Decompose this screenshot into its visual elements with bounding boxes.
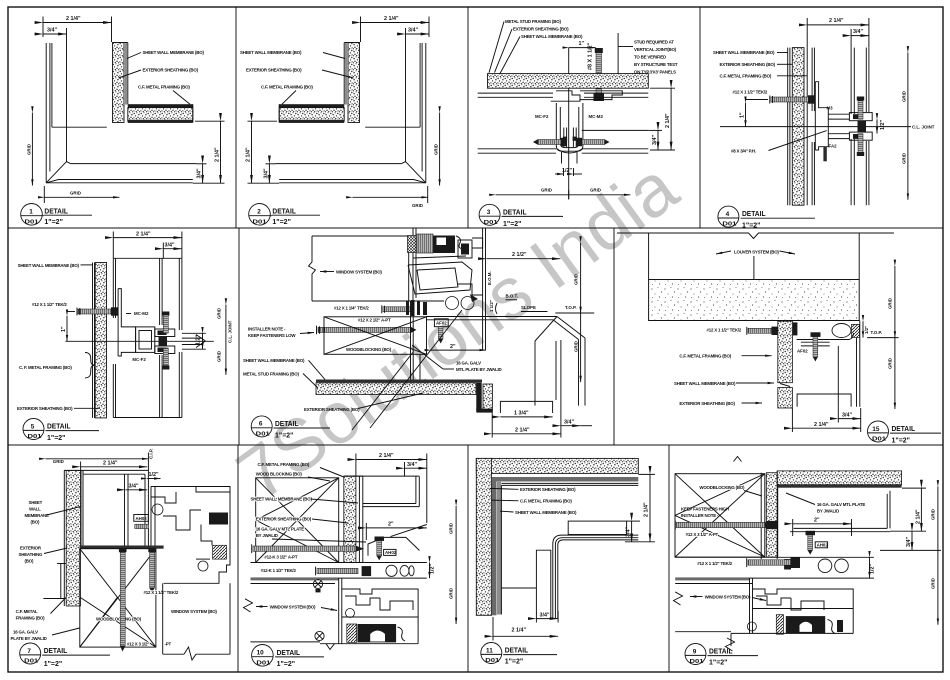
top band right [777, 471, 901, 485]
vertical screw at joint [596, 53, 602, 98]
svg-text:D01: D01 [253, 219, 267, 225]
glazing tube right [182, 332, 206, 334]
svg-text:DETAIL: DETAIL [44, 207, 68, 216]
AH02 box + small screw [134, 515, 149, 522]
svg-text:D01: D01 [690, 659, 704, 665]
svg-text:GRID: GRID [449, 588, 454, 599]
clip rects with dark interlock [155, 329, 175, 337]
vertical screw + AH02 [806, 531, 816, 535]
corner detail linework [43, 17, 225, 184]
1/2 dim below [563, 168, 565, 176]
dim 2 1/2 [487, 258, 561, 260]
joint centerline [568, 48, 570, 199]
skin lines upper right [584, 92, 648, 94]
svg-text:M3: M3 [827, 106, 834, 111]
row divider 2 [8, 444, 943, 446]
screw 2 [317, 568, 358, 573]
AF02 box [434, 319, 448, 327]
svg-text:3/4": 3/4" [652, 135, 658, 145]
svg-text:T.O.P.: T.O.P. [871, 330, 883, 335]
long screw 1 [253, 546, 356, 551]
bottom dim 3/4 [536, 618, 558, 620]
jamb lines [49, 43, 51, 172]
band bottom heavier [649, 320, 860, 322]
svg-text:WINDOW SYSTEM (BO): WINDOW SYSTEM (BO) [171, 609, 217, 614]
right ext line [648, 129, 662, 131]
svg-text:SHEET WALL MEMBRANE (BO): SHEET WALL MEMBRANE (BO) [240, 50, 302, 55]
svg-text:2 1/4": 2 1/4" [644, 502, 650, 517]
svg-text:2 1/4": 2 1/4" [829, 18, 844, 24]
stud vertical line [617, 33, 619, 74]
svg-text:2 1/4": 2 1/4" [215, 147, 221, 162]
row divider 1 [8, 227, 943, 229]
window head frame [675, 579, 749, 581]
svg-text:STUD REQUIRED AT: STUD REQUIRED AT [634, 40, 674, 45]
svg-text:1 1/2": 1 1/2" [489, 300, 494, 312]
svg-text:3/4": 3/4" [842, 412, 852, 418]
svg-text:AF02: AF02 [436, 321, 447, 326]
right dims [920, 488, 922, 531]
bracket tail dark [823, 147, 826, 162]
svg-text:4: 4 [726, 211, 730, 218]
top clip screw [858, 100, 863, 120]
svg-text:1"=2": 1"=2" [44, 217, 63, 226]
svg-text:D01: D01 [722, 222, 736, 228]
frame extrusions [338, 578, 340, 644]
svg-text:2": 2" [450, 344, 456, 350]
svg-text:C.F. METAL FRAMING (BO): C.F. METAL FRAMING (BO) [138, 85, 190, 90]
svg-text:3/4": 3/4" [853, 29, 863, 35]
svg-text:1": 1" [740, 112, 746, 118]
right horizontal screw [582, 140, 605, 145]
sheathing horizontal band [316, 383, 476, 395]
svg-text:GRID: GRID [888, 298, 893, 309]
ledge corner [426, 316, 557, 318]
svg-text:MC-F2: MC-F2 [132, 357, 146, 362]
svg-text:DETAIL: DETAIL [505, 646, 529, 655]
svg-text:3/4": 3/4" [47, 28, 57, 34]
svg-text:EXTERIOR SHEATHING (BO): EXTERIOR SHEATHING (BO) [143, 68, 199, 73]
wall sheathing horizontal band [488, 74, 649, 89]
svg-text:C.I.P.: C.I.P. [149, 449, 154, 459]
window jamb frame cluster [152, 504, 163, 515]
window system block [251, 641, 321, 643]
svg-text:1/2": 1/2" [149, 472, 159, 478]
dim extension lines [42, 17, 44, 38]
svg-text:#12 X 1 1/2" TEK/2: #12 X 1 1/2" TEK/2 [707, 328, 742, 333]
detail bubble 2 [249, 204, 271, 226]
svg-text:1"=2": 1"=2" [47, 433, 66, 442]
svg-text:TO BE VERIFIED: TO BE VERIFIED [634, 55, 666, 60]
svg-text:3/4": 3/4" [564, 419, 574, 425]
detail bubble 5 [23, 419, 44, 440]
inner lines horizontal [501, 482, 638, 484]
svg-text:DETAIL: DETAIL [742, 209, 766, 218]
joint gap dim 1/2 [876, 120, 878, 134]
svg-text:C.F. METAL FRAMING (BO): C.F. METAL FRAMING (BO) [520, 499, 572, 504]
svg-text:2 1/4": 2 1/4" [915, 509, 921, 524]
top grid dim [46, 458, 149, 460]
dim 1 inch vertical [745, 103, 747, 127]
svg-text:3/4": 3/4" [129, 484, 139, 490]
outer skin U profile [415, 476, 417, 503]
svg-text:E.O.M.: E.O.M. [487, 271, 492, 285]
svg-text:C.F. METAL FRAMING (BO): C.F. METAL FRAMING (BO) [679, 354, 731, 359]
small break tick above blocking [734, 457, 742, 462]
svg-text:3/4": 3/4" [165, 242, 175, 248]
interlock dark [858, 121, 867, 132]
long vertical screw [120, 550, 125, 646]
svg-text:AF02: AF02 [797, 349, 808, 354]
bottom cap [113, 417, 182, 419]
bracket c-shape [815, 82, 828, 150]
svg-text:2 1/4": 2 1/4" [515, 427, 530, 433]
dim 2 1/4 [356, 459, 427, 461]
svg-text:FRAMING (BO): FRAMING (BO) [16, 616, 46, 621]
svg-text:6: 6 [259, 421, 263, 428]
svg-text:SHEET WALL MEMBRANE (BO): SHEET WALL MEMBRANE (BO) [713, 50, 775, 55]
short vertical screw [150, 550, 155, 588]
svg-text:WINDOW SYSTEM (BO): WINDOW SYSTEM (BO) [705, 595, 751, 600]
svg-text:SHEET WALL MEMBRANE (BO): SHEET WALL MEMBRANE (BO) [251, 497, 313, 502]
dim 1/2 [147, 478, 160, 480]
left grid dim [31, 113, 33, 186]
svg-text:#12 X 1 1/2" TEK/2: #12 X 1 1/2" TEK/2 [144, 590, 179, 595]
wall membrane lines [63, 470, 65, 606]
svg-text:GRID: GRID [931, 509, 936, 520]
svg-text:#12 X 1 1/4" TEK/2: #12 X 1 1/4" TEK/2 [334, 306, 369, 311]
svg-text:AH02: AH02 [136, 516, 148, 521]
svg-text:D01: D01 [256, 660, 270, 666]
wood blocking X [324, 317, 427, 355]
svg-text:16 GA. GALV MTL PLATE: 16 GA. GALV MTL PLATE [256, 527, 305, 532]
svg-text:1/2": 1/2" [562, 168, 572, 174]
skins outer [159, 258, 161, 325]
svg-text:GRID: GRID [590, 188, 601, 193]
wall sheathing vertical band [113, 43, 125, 123]
svg-text:1"=2": 1"=2" [277, 659, 296, 668]
window system block [162, 583, 164, 654]
inner verticals [837, 346, 839, 407]
svg-text:WOODBLOCKING (BO): WOODBLOCKING (BO) [346, 347, 392, 352]
svg-text:2 1/2": 2 1/2" [512, 252, 527, 258]
svg-text:16 GA. GALV: 16 GA. GALV [456, 361, 481, 366]
svg-text:1/2": 1/2" [430, 564, 436, 574]
svg-text:EXTERIOR SHEATHING (BO): EXTERIOR SHEATHING (BO) [513, 27, 569, 32]
horizontal sheathing band [128, 108, 193, 122]
wall sheathing vertical band [95, 263, 106, 418]
left dim 3/4 vertical [268, 164, 270, 183]
head band [675, 556, 874, 558]
svg-text:GRID: GRID [449, 523, 454, 534]
svg-text:1"=2": 1"=2" [742, 221, 761, 230]
svg-text:D01: D01 [256, 431, 270, 437]
svg-text:#8 X 3/4" P.H.: #8 X 3/4" P.H. [731, 149, 756, 154]
right grid dims [225, 305, 227, 375]
svg-text:MEMBRANE: MEMBRANE [25, 513, 50, 518]
svg-text:2": 2" [388, 522, 394, 528]
right dim 2 1/4 [649, 474, 651, 541]
bottom grid dim [496, 194, 631, 196]
gasket roll ellipse [832, 324, 851, 338]
skins inner [112, 258, 114, 318]
svg-text:1"=2": 1"=2" [275, 430, 294, 439]
svg-text:1/2": 1/2" [870, 564, 876, 574]
mounting bar [801, 341, 830, 343]
dim 2 1/4 top [43, 22, 112, 24]
detail bubble 15 [868, 421, 889, 442]
svg-text:16 GA. GALV: 16 GA. GALV [13, 630, 38, 635]
svg-text:SHEATHING: SHEATHING [19, 552, 44, 557]
mullion verticals [124, 474, 126, 549]
svg-text:KEEP FASTENERS LOW: KEEP FASTENERS LOW [248, 333, 296, 338]
svg-text:DETAIL: DETAIL [47, 422, 71, 431]
right grid dim [894, 266, 896, 338]
svg-text:SHEET WALL MEMBRANE (BO): SHEET WALL MEMBRANE (BO) [515, 510, 577, 515]
outer skin lines below joint [850, 139, 852, 205]
svg-text:9: 9 [693, 648, 697, 655]
svg-text:EXTERIOR SHEATHING (BO): EXTERIOR SHEATHING (BO) [256, 517, 312, 522]
top cap line [113, 257, 182, 259]
bottom dims [838, 418, 860, 420]
clip channel [136, 327, 155, 353]
right dim 3/4 vertical [657, 130, 659, 150]
dim 1 inch vertical [66, 316, 68, 342]
svg-text:EXTERIOR SHEATHING (BO): EXTERIOR SHEATHING (BO) [520, 487, 576, 492]
svg-text:11: 11 [486, 647, 493, 654]
svg-text:DETAIL: DETAIL [275, 419, 299, 428]
svg-text:INSTALLER NOTE -: INSTALLER NOTE - [681, 513, 719, 518]
svg-text:(BO): (BO) [25, 559, 34, 564]
wood blocking X [256, 478, 339, 563]
svg-text:#12 X 1 1/2" TEK/2: #12 X 1 1/2" TEK/2 [32, 302, 67, 307]
vertical screw + AH02 [375, 537, 385, 541]
right dim 3/4 [631, 521, 633, 542]
U channel bottom [797, 394, 851, 407]
svg-text:MC-M2: MC-M2 [134, 311, 149, 316]
svg-text:3/4": 3/4" [263, 168, 269, 178]
vertical screw [811, 332, 821, 337]
svg-text:DETAIL: DETAIL [272, 207, 296, 216]
horizontal tek screw [78, 309, 111, 314]
svg-text:#12 X 3 1/2": #12 X 3 1/2" [127, 641, 149, 646]
membrane lines [125, 43, 127, 105]
svg-text:2 1/4": 2 1/4" [136, 231, 151, 237]
svg-text:1"=2": 1"=2" [709, 658, 728, 667]
svg-text:DETAIL: DETAIL [503, 207, 527, 216]
svg-text:C.F. METAL: C.F. METAL [16, 609, 38, 614]
svg-text:1"=2": 1"=2" [44, 659, 63, 668]
right grid dims [455, 506, 457, 624]
svg-text:GRID: GRID [888, 358, 893, 369]
col dividers bottom row [237, 445, 239, 672]
centerline [65, 340, 213, 342]
svg-text:D01: D01 [872, 437, 886, 443]
svg-text:SHEET: SHEET [29, 500, 43, 505]
skin lines upper left [478, 92, 553, 94]
svg-text:D01: D01 [24, 659, 38, 665]
wall stipple strip [66, 470, 80, 606]
inner skin lines [811, 48, 813, 111]
svg-text:-PT: -PT [165, 641, 172, 646]
svg-text:SLOPE: SLOPE [521, 305, 536, 310]
wall membrane lines [92, 263, 94, 418]
svg-text:2 1/4": 2 1/4" [665, 113, 671, 128]
svg-text:SHEET WALL MEMBRANE (BO): SHEET WALL MEMBRANE (BO) [18, 263, 80, 268]
right dim 2 1/4 vertical [220, 121, 222, 183]
svg-text:KEEP FASTENERS HIGH: KEEP FASTENERS HIGH [681, 507, 729, 512]
svg-text:MC-M2: MC-M2 [589, 114, 604, 119]
svg-text:SHEET WALL MEMBRANE (BO): SHEET WALL MEMBRANE (BO) [243, 358, 305, 363]
dim 1 inch [569, 47, 596, 49]
svg-text:EXTERIOR SHEATHING (BO): EXTERIOR SHEATHING (BO) [17, 406, 73, 411]
right grid dim [907, 53, 909, 200]
membrane dark band [316, 380, 482, 383]
svg-text:2 1/4": 2 1/4" [246, 147, 252, 162]
louver band verticals [648, 233, 650, 280]
svg-text:1 3/4": 1 3/4" [514, 411, 529, 417]
bottom tube [561, 152, 563, 164]
svg-text:3/4": 3/4" [408, 28, 418, 34]
left bracket [551, 91, 580, 101]
svg-text:WOODBLOCKING (BO): WOODBLOCKING (BO) [96, 617, 142, 622]
svg-text:2": 2" [814, 518, 820, 524]
svg-text:SHEET WALL MEMBRANE (BO): SHEET WALL MEMBRANE (BO) [521, 34, 583, 39]
lower skin lines left [478, 148, 556, 150]
svg-text:2 1/4": 2 1/4" [814, 422, 829, 428]
svg-text:#12-K 3 1/2" A-PT: #12-K 3 1/2" A-PT [264, 555, 297, 560]
svg-text:PLATE BY JWALID: PLATE BY JWALID [11, 636, 47, 641]
svg-text:DETAIL: DETAIL [892, 424, 916, 433]
bottom clip screw [163, 348, 168, 367]
z-bracket [118, 289, 136, 356]
svg-text:WINDOW SYSTEM (BO): WINDOW SYSTEM (BO) [336, 270, 382, 275]
svg-text:D01: D01 [485, 658, 499, 664]
svg-text:1"=2": 1"=2" [892, 436, 911, 445]
horizontal tek screw [771, 97, 812, 102]
svg-text:MC-F2: MC-F2 [535, 114, 549, 119]
svg-text:BY JWALID: BY JWALID [256, 533, 278, 538]
svg-text:#8 X 1 1/2": #8 X 1 1/2" [588, 42, 594, 70]
svg-text:BY JWALID: BY JWALID [817, 509, 839, 514]
wall stipple strip [766, 473, 778, 557]
svg-text:EXTERIOR: EXTERIOR [20, 546, 42, 551]
svg-text:B.O.T.: B.O.T. [506, 294, 518, 299]
svg-text:2 1/4": 2 1/4" [379, 453, 394, 459]
svg-text:GRID: GRID [574, 274, 579, 285]
svg-text:2: 2 [257, 209, 261, 216]
slope diagonal [391, 525, 427, 537]
svg-text:#12 X 1 1/2" TEK/2: #12 X 1 1/2" TEK/2 [733, 90, 768, 95]
svg-text:7: 7 [27, 648, 31, 655]
dim 2 1/4 top [361, 22, 430, 24]
svg-text:(BO): (BO) [31, 520, 40, 525]
long screw [677, 522, 765, 527]
membrane lines right [358, 476, 360, 562]
wall membrane lines [787, 48, 789, 206]
16GA plate dark strip [80, 546, 164, 549]
svg-text:#12 X 3 1/2" A-PT: #12 X 3 1/2" A-PT [686, 532, 719, 537]
wall stipple strip [344, 476, 356, 562]
horizontal screw into strip [748, 328, 772, 333]
top dim 3/4 [163, 248, 182, 250]
top grey membrane band [496, 477, 638, 482]
svg-text:SHEET WALL MEMBRANE (BO): SHEET WALL MEMBRANE (BO) [143, 50, 205, 55]
svg-text:GRID: GRID [27, 144, 32, 155]
svg-text:GRID: GRID [217, 351, 222, 362]
svg-text:SHEET WALL MEMBRANE (BO): SHEET WALL MEMBRANE (BO) [674, 381, 736, 386]
svg-text:1"=2": 1"=2" [505, 657, 524, 666]
outer skin U profile [886, 494, 888, 529]
2 inch dim [366, 527, 427, 529]
svg-text:3/4": 3/4" [197, 168, 203, 178]
svg-text:WOODBLOCKING (BO): WOODBLOCKING (BO) [699, 485, 745, 490]
svg-text:GRID: GRID [902, 153, 907, 164]
svg-text:3/4": 3/4" [906, 537, 912, 547]
clip rect bottom [849, 132, 872, 140]
svg-text:#12-K 1 1/2" TEK/2: #12-K 1 1/2" TEK/2 [261, 568, 297, 573]
left horizontal screw [538, 140, 561, 145]
svg-text:VERTICAL JOINT(BO): VERTICAL JOINT(BO) [634, 47, 677, 52]
detail bubble 3 [479, 204, 500, 225]
svg-text:AH02: AH02 [817, 543, 829, 548]
svg-text:1"=2": 1"=2" [503, 219, 522, 228]
dim 3/4 [405, 467, 427, 469]
svg-text:WOOD BLOCKING (BO): WOOD BLOCKING (BO) [256, 472, 303, 477]
svg-text:C.L. JOINT: C.L. JOINT [912, 125, 935, 130]
black anchor at strip top [793, 322, 798, 335]
svg-text:BY STRUCTURE TEST: BY STRUCTURE TEST [634, 62, 678, 67]
head band [251, 562, 427, 564]
step rect [568, 521, 626, 534]
svg-text:16 GA. GALV MTL PLATE: 16 GA. GALV MTL PLATE [817, 502, 866, 507]
1/2 gap dim [202, 333, 204, 349]
framing line [806, 48, 808, 206]
svg-text:INSTALLER NOTE -: INSTALLER NOTE - [248, 327, 286, 332]
svg-text:T.O.P.: T.O.P. [565, 305, 577, 310]
top dim 2 1/4 [113, 237, 182, 239]
long horizontal screw [318, 327, 411, 332]
right grid dim [439, 113, 441, 186]
dim 3/4 [406, 33, 430, 35]
curly brace [85, 352, 95, 378]
svg-text:GRID: GRID [541, 188, 552, 193]
svg-text:METAL STUD FRAMING (BO): METAL STUD FRAMING (BO) [243, 371, 299, 376]
grid dim [937, 487, 939, 625]
svg-text:D01: D01 [25, 219, 39, 225]
left dim 2 1/4 vertical [251, 121, 253, 183]
svg-text:DETAIL: DETAIL [709, 647, 733, 656]
svg-text:C.F. METAL FRAMING (BO): C.F. METAL FRAMING (BO) [258, 462, 310, 467]
window head frame [251, 579, 339, 581]
svg-text:#12 X 1 1/2" TEK/2: #12 X 1 1/2" TEK/2 [697, 561, 732, 566]
detail bubble 6 [251, 416, 272, 437]
small horizontal screw [383, 307, 412, 312]
svg-text:2 1/4": 2 1/4" [512, 628, 527, 634]
svg-text:1: 1 [29, 209, 33, 216]
ledge slope [368, 537, 420, 555]
svg-text:10: 10 [257, 650, 265, 657]
svg-text:DETAIL: DETAIL [44, 646, 68, 655]
svg-text:1": 1" [579, 41, 585, 47]
svg-text:EXTERIOR SHEATHING (BO): EXTERIOR SHEATHING (BO) [246, 68, 302, 73]
svg-text:LOUVER SYSTEM (BO): LOUVER SYSTEM (BO) [734, 250, 779, 255]
svg-text:GRID: GRID [902, 91, 907, 102]
svg-text:GRID: GRID [53, 459, 64, 464]
svg-text:15: 15 [872, 426, 880, 433]
svg-text:C. F. METAL FRAMING (BO): C. F. METAL FRAMING (BO) [19, 365, 72, 370]
svg-text:GRID: GRID [412, 203, 423, 208]
